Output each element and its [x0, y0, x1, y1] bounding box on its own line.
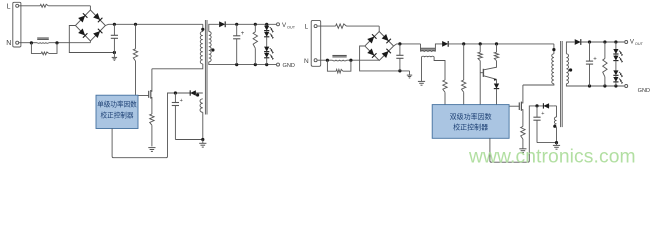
svg-text:OUT: OUT: [287, 25, 296, 29]
svg-text:N: N: [6, 40, 11, 47]
svg-text:OUT: OUT: [635, 42, 644, 46]
svg-text:双级功率因数: 双级功率因数: [450, 112, 492, 121]
svg-text:校正控制器: 校正控制器: [101, 111, 134, 120]
svg-text:+: +: [241, 31, 245, 37]
svg-text:单级功率因数: 单级功率因数: [97, 100, 137, 109]
svg-text:L: L: [305, 24, 309, 31]
svg-text:+: +: [541, 111, 544, 117]
svg-text:GND: GND: [638, 88, 650, 94]
svg-text:+: +: [593, 56, 597, 62]
svg-text:+: +: [180, 98, 183, 104]
svg-text:L: L: [7, 3, 11, 10]
svg-text:N: N: [304, 58, 309, 65]
svg-text:校正控制器: 校正控制器: [453, 123, 488, 132]
svg-text:www.cntronics.com: www.cntronics.com: [468, 146, 636, 167]
svg-text:GND: GND: [283, 63, 295, 69]
